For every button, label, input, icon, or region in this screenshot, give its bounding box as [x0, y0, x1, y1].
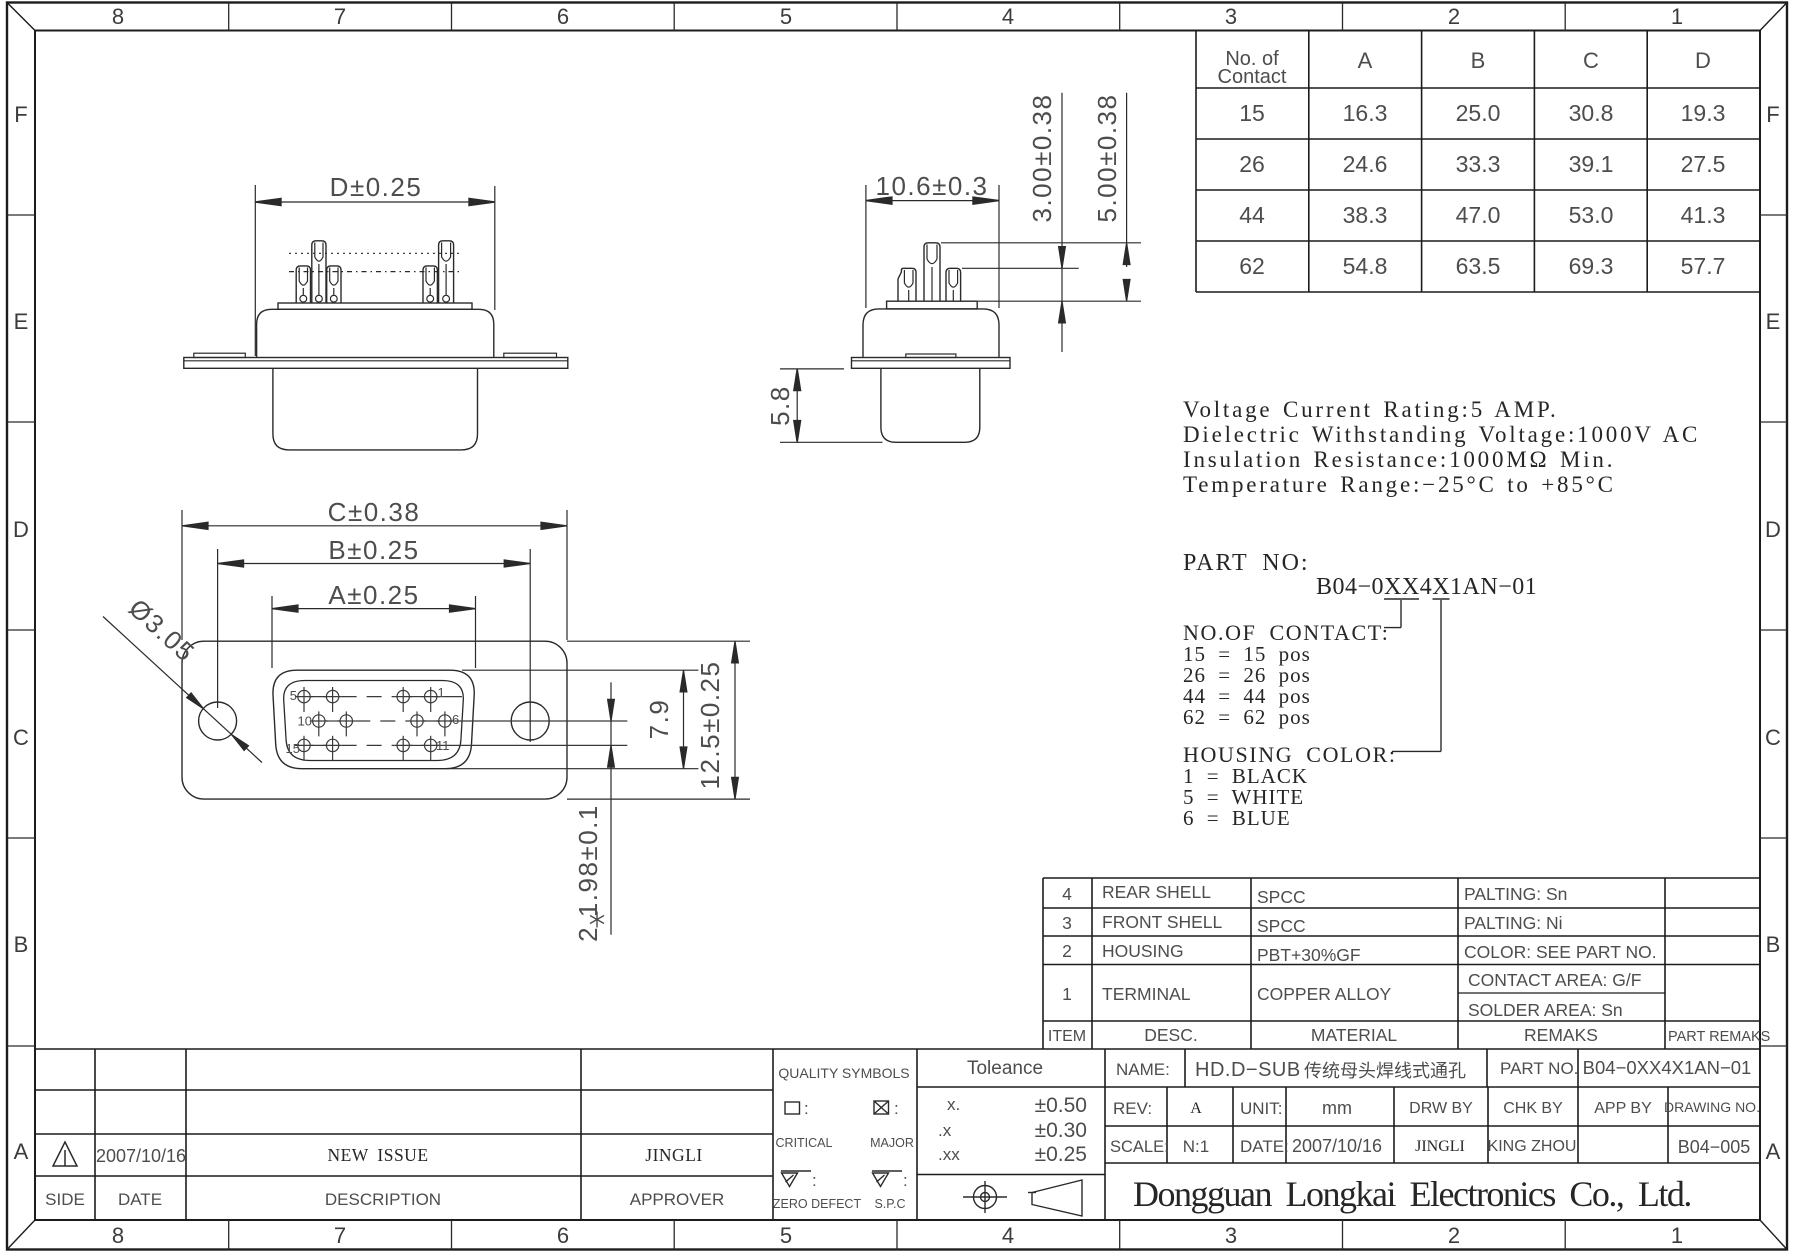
- svg-text:2 1.98±0.1: 2 1.98±0.1: [573, 804, 603, 942]
- front view outer shell: [273, 670, 474, 769]
- dim B line: [218, 563, 531, 565]
- svg-text:PALTING: Ni: PALTING: Ni: [1464, 913, 1563, 933]
- svg-text:1: 1: [438, 685, 445, 700]
- svg-text:3: 3: [1225, 4, 1237, 29]
- svg-text:62 = 62 pos: 62 = 62 pos: [1183, 705, 1311, 729]
- left view dim D ext lines: [254, 185, 256, 356]
- svg-text:6: 6: [557, 4, 569, 29]
- svg-text:63.5: 63.5: [1456, 253, 1501, 279]
- title block text: [1110, 1057, 1760, 1157]
- svg-text:B04−0XX4X1AN−01: B04−0XX4X1AN−01: [1316, 574, 1537, 600]
- svg-text:A: A: [14, 1139, 29, 1164]
- svg-text:26: 26: [1239, 151, 1265, 177]
- revision triangle symbol: [53, 1142, 77, 1166]
- notes text block: [1183, 397, 1700, 497]
- svg-text:DESC.: DESC.: [1144, 1025, 1197, 1045]
- revision table: [94, 1049, 96, 1219]
- svg-text:A: A: [1766, 1139, 1781, 1164]
- svg-text:2: 2: [1062, 941, 1072, 961]
- svg-text:MATERIAL: MATERIAL: [1311, 1025, 1397, 1045]
- front view flange: [182, 641, 567, 799]
- svg-text:传统母头焊线式通孔: 传统母头焊线式通孔: [1304, 1061, 1466, 1081]
- dim 7.9 line: [683, 670, 685, 769]
- left view dim D line: [255, 201, 494, 203]
- svg-text:PART NO.: PART NO.: [1500, 1059, 1578, 1078]
- svg-text:SOLDER AREA: Sn: SOLDER AREA: Sn: [1468, 1000, 1623, 1020]
- svg-text:S.P.C: S.P.C: [874, 1197, 905, 1211]
- front view mounting hole right: [511, 702, 549, 740]
- svg-text:62: 62: [1239, 253, 1265, 279]
- svg-text:4: 4: [1002, 1223, 1014, 1248]
- svg-text:JINGLI: JINGLI: [1415, 1138, 1465, 1155]
- front view mounting hole left: [199, 702, 237, 740]
- svg-text:53.0: 53.0: [1569, 202, 1614, 228]
- svg-text:COPPER ALLOY: COPPER ALLOY: [1257, 984, 1392, 1004]
- left view dotted pin lines: [289, 252, 461, 254]
- toleance block: [938, 1058, 1087, 1166]
- svg-text:DRW BY: DRW BY: [1409, 1100, 1473, 1117]
- svg-text::: :: [812, 1171, 817, 1190]
- svg-text:Ø3.05: Ø3.05: [123, 593, 201, 668]
- svg-text:HOUSING: HOUSING: [1102, 941, 1184, 961]
- row 1 center line: [310, 696, 327, 698]
- left view flange: [184, 358, 568, 369]
- svg-text:ZERO DEFECT: ZERO DEFECT: [773, 1197, 862, 1211]
- dim C line: [182, 525, 567, 527]
- svg-text:Dielectric Withstanding Voltag: Dielectric Withstanding Voltage:1000V AC: [1183, 422, 1700, 447]
- svg-text:PART NO:: PART NO:: [1183, 550, 1310, 576]
- svg-text:8: 8: [112, 4, 124, 29]
- svg-text:SPCC: SPCC: [1257, 916, 1306, 936]
- revision row: [45, 1146, 724, 1209]
- svg-text:C±0.38: C±0.38: [328, 497, 421, 527]
- left view pin base strip: [278, 303, 472, 309]
- svg-text::: :: [804, 1099, 809, 1118]
- svg-text:REV:: REV:: [1113, 1099, 1152, 1118]
- svg-text:F: F: [1766, 102, 1779, 127]
- mid view dim 10.6 line: [866, 200, 999, 202]
- svg-text:UNIT:: UNIT:: [1240, 1099, 1283, 1118]
- svg-text::: :: [903, 1171, 908, 1190]
- svg-text:QUALITY SYMBOLS: QUALITY SYMBOLS: [778, 1065, 909, 1081]
- svg-text:4: 4: [1062, 884, 1072, 904]
- svg-text:5.8: 5.8: [765, 385, 795, 426]
- svg-text:1: 1: [1671, 4, 1683, 29]
- svg-text:DRAWING NO.: DRAWING NO.: [1664, 1099, 1760, 1115]
- svg-text:KING ZHOU: KING ZHOU: [1488, 1138, 1577, 1155]
- svg-text:F: F: [14, 102, 27, 127]
- svg-text:5: 5: [780, 4, 792, 29]
- svg-text:mm: mm: [1322, 1098, 1352, 1118]
- svg-text:NEW ISSUE: NEW ISSUE: [327, 1145, 428, 1165]
- svg-text:5.00±0.38: 5.00±0.38: [1092, 94, 1122, 223]
- svg-text:57.7: 57.7: [1681, 253, 1726, 279]
- svg-text:D: D: [1695, 48, 1711, 73]
- svg-text:Toleance: Toleance: [967, 1058, 1043, 1079]
- svg-text:COLOR: SEE PART NO.: COLOR: SEE PART NO.: [1464, 942, 1657, 962]
- svg-text:10: 10: [298, 714, 312, 729]
- svg-text:±0.50: ±0.50: [1035, 1094, 1087, 1117]
- svg-text:REMAKS: REMAKS: [1524, 1025, 1598, 1045]
- svg-text:3: 3: [1062, 913, 1072, 933]
- dia 3.05 leader: [103, 617, 262, 763]
- dimension table top right: [1196, 30, 1760, 292]
- svg-text:2: 2: [1448, 4, 1460, 29]
- svg-text:TERMINAL: TERMINAL: [1102, 984, 1191, 1004]
- svg-text:B04−0XX4X1AN−01: B04−0XX4X1AN−01: [1583, 1057, 1752, 1078]
- dim 1.98 line: [610, 682, 612, 934]
- svg-text:Contact: Contact: [1218, 66, 1287, 88]
- toleance box: [1104, 1049, 1106, 1219]
- svg-text:C: C: [1765, 725, 1781, 750]
- name row value: [1195, 1059, 1466, 1081]
- quality symbols box: [916, 1049, 918, 1219]
- svg-text:2007/10/16: 2007/10/16: [96, 1146, 186, 1166]
- left view rear pin L1: [312, 241, 326, 303]
- dim A ext lines: [271, 596, 273, 668]
- BOM table: [1043, 878, 1760, 1049]
- leader to NO.OF CONTACT: [1400, 600, 1402, 628]
- leader to HOUSING COLOR: [1440, 600, 1442, 751]
- svg-text:11: 11: [436, 738, 450, 753]
- mid view center tall pin: [924, 243, 940, 301]
- svg-text:12.5±0.25: 12.5±0.25: [695, 661, 725, 790]
- svg-text:2: 2: [1448, 1223, 1460, 1248]
- svg-text:6: 6: [452, 712, 459, 727]
- dim 3.00 line: [1061, 93, 1063, 269]
- mid view right ext line from short pin top: [962, 267, 1079, 269]
- svg-text:D: D: [1765, 517, 1781, 542]
- svg-text:SIDE: SIDE: [45, 1190, 85, 1209]
- svg-text:DATE:: DATE:: [1240, 1137, 1289, 1156]
- svg-text:1: 1: [1671, 1223, 1683, 1248]
- mid view right pin: [946, 268, 961, 301]
- row 2 center line: [325, 720, 341, 722]
- svg-text:B: B: [1766, 932, 1781, 957]
- svg-text:x.: x.: [947, 1095, 960, 1114]
- mid view dim 10.6 ext lines: [865, 185, 867, 308]
- svg-text:15: 15: [286, 741, 300, 756]
- svg-text:APPROVER: APPROVER: [630, 1190, 724, 1209]
- front view right ext lines: [447, 641, 750, 935]
- svg-text:±0.30: ±0.30: [1035, 1119, 1087, 1142]
- mid view left pin: [898, 268, 916, 301]
- svg-text:C: C: [1583, 48, 1599, 73]
- svg-text:CHK BY: CHK BY: [1503, 1100, 1563, 1117]
- svg-text:D±0.25: D±0.25: [330, 172, 423, 202]
- svg-text:15: 15: [1239, 100, 1265, 126]
- svg-text:38.3: 38.3: [1343, 202, 1388, 228]
- svg-text:PALTING: Sn: PALTING: Sn: [1464, 884, 1567, 904]
- svg-text:DATE: DATE: [118, 1190, 162, 1209]
- svg-text:DESCRIPTION: DESCRIPTION: [325, 1190, 441, 1209]
- svg-text:N:1: N:1: [1183, 1137, 1209, 1156]
- svg-text:69.3: 69.3: [1569, 253, 1614, 279]
- svg-text:FRONT SHELL: FRONT SHELL: [1102, 912, 1223, 932]
- svg-text:2007/10/16: 2007/10/16: [1292, 1136, 1382, 1156]
- svg-text:5: 5: [290, 688, 297, 703]
- contact list: [1183, 620, 1397, 767]
- front view hole centerlines: [182, 510, 567, 742]
- svg-text:B: B: [14, 932, 29, 957]
- mid view upper shell body: [863, 309, 999, 358]
- svg-text:19.3: 19.3: [1681, 100, 1726, 126]
- dim C ext lines: [181, 510, 183, 640]
- svg-text:CRITICAL: CRITICAL: [776, 1136, 833, 1150]
- svg-text:Insulation Resistance:1000MΩ M: Insulation Resistance:1000MΩ Min.: [1183, 447, 1615, 472]
- svg-text:JINGLI: JINGLI: [645, 1145, 702, 1165]
- svg-text:A±0.25: A±0.25: [328, 580, 419, 610]
- left view rear shell: [273, 368, 478, 450]
- svg-text:ITEM: ITEM: [1048, 1028, 1086, 1045]
- quality symbols: [773, 1065, 914, 1211]
- part number block: [1183, 550, 1537, 600]
- svg-text:44: 44: [1239, 202, 1265, 228]
- svg-text:REAR SHELL: REAR SHELL: [1102, 882, 1211, 902]
- svg-text:41.3: 41.3: [1681, 202, 1726, 228]
- svg-text:7: 7: [334, 4, 346, 29]
- svg-text:B: B: [1471, 48, 1486, 73]
- front view pins: [295, 687, 627, 761]
- svg-text:B±0.25: B±0.25: [328, 535, 419, 565]
- svg-text:MAJOR: MAJOR: [870, 1136, 914, 1150]
- svg-text:Dongguan Longkai Electronics C: Dongguan Longkai Electronics Co., Ltd.: [1133, 1174, 1691, 1214]
- svg-text:.xx: .xx: [938, 1145, 960, 1164]
- left view front pin S3: [423, 266, 437, 303]
- underlines under XX and X: [1384, 599, 1450, 751]
- svg-text:25.0: 25.0: [1456, 100, 1501, 126]
- left view upper shell body: [257, 309, 494, 357]
- svg-text:33.3: 33.3: [1456, 151, 1501, 177]
- svg-text:NAME:: NAME:: [1116, 1060, 1170, 1079]
- svg-text:16.3: 16.3: [1343, 100, 1388, 126]
- mid view rear shell: [881, 368, 980, 442]
- svg-text:Voltage Current Rating:5 AMP.: Voltage Current Rating:5 AMP.: [1183, 397, 1559, 422]
- front view inner shell: [284, 681, 464, 761]
- svg-text:Temperature Range:−25°C to +85: Temperature Range:−25°C to +85°C: [1183, 472, 1616, 497]
- svg-text:10.6±0.3: 10.6±0.3: [875, 171, 988, 201]
- svg-text:APP BY: APP BY: [1594, 1100, 1652, 1117]
- mid view right ext line from base top: [978, 300, 1141, 302]
- svg-text:SPCC: SPCC: [1257, 887, 1306, 907]
- left view front pin S2: [327, 266, 341, 303]
- mid view pin base strip: [887, 301, 978, 309]
- svg-text:D: D: [13, 517, 29, 542]
- svg-text:C: C: [13, 725, 29, 750]
- svg-text:E: E: [1766, 309, 1781, 334]
- svg-text:E: E: [14, 309, 29, 334]
- svg-text:7.9: 7.9: [644, 699, 674, 740]
- left view front pin S1: [296, 266, 310, 303]
- svg-text:3.00±0.38: 3.00±0.38: [1027, 94, 1057, 223]
- left view rear pin L2: [439, 241, 454, 303]
- mid view flange: [852, 358, 1011, 369]
- svg-text:PART REMAKS: PART REMAKS: [1668, 1029, 1770, 1045]
- svg-text:30.8: 30.8: [1569, 100, 1614, 126]
- dim 5.00 line: [1126, 93, 1128, 267]
- row 3 center line: [310, 744, 327, 746]
- title block verticals: [1184, 1049, 1186, 1087]
- svg-text:±0.25: ±0.25: [1035, 1143, 1087, 1166]
- svg-text:47.0: 47.0: [1456, 202, 1501, 228]
- svg-text:B04−005: B04−005: [1678, 1137, 1751, 1157]
- third angle projection symbol: [963, 1180, 1082, 1216]
- svg-text:7: 7: [334, 1223, 346, 1248]
- svg-text:3: 3: [1225, 1223, 1237, 1248]
- svg-text:CONTACT AREA: G/F: CONTACT AREA: G/F: [1468, 970, 1641, 990]
- svg-text:A: A: [1190, 1100, 1202, 1117]
- company name: [1133, 1174, 1691, 1214]
- title block frame: [35, 1049, 1760, 1219]
- svg-text:24.6: 24.6: [1343, 151, 1388, 177]
- svg-text::: :: [894, 1099, 899, 1118]
- svg-text:5: 5: [780, 1223, 792, 1248]
- mid view right ext line from tall pin top: [941, 242, 1141, 244]
- dim 5.8 line: [796, 369, 798, 442]
- svg-text:HD.D−SUB: HD.D−SUB: [1195, 1059, 1301, 1081]
- svg-text:27.5: 27.5: [1681, 151, 1726, 177]
- svg-text:39.1: 39.1: [1569, 151, 1614, 177]
- svg-text:8: 8: [112, 1223, 124, 1248]
- svg-text:6 = BLUE: 6 = BLUE: [1183, 806, 1291, 830]
- svg-text:A: A: [1358, 48, 1373, 73]
- dim 12.5 line: [734, 641, 736, 799]
- dim 5.8 ext lines: [780, 368, 844, 370]
- svg-text:1: 1: [1062, 984, 1072, 1004]
- svg-text:6: 6: [557, 1223, 569, 1248]
- svg-text:PBT+30%GF: PBT+30%GF: [1257, 945, 1361, 965]
- svg-text:SCALE:: SCALE:: [1110, 1138, 1169, 1156]
- dim A line: [272, 608, 476, 610]
- svg-text:4: 4: [1002, 4, 1014, 29]
- svg-text:54.8: 54.8: [1343, 253, 1388, 279]
- svg-text:.x: .x: [938, 1121, 952, 1140]
